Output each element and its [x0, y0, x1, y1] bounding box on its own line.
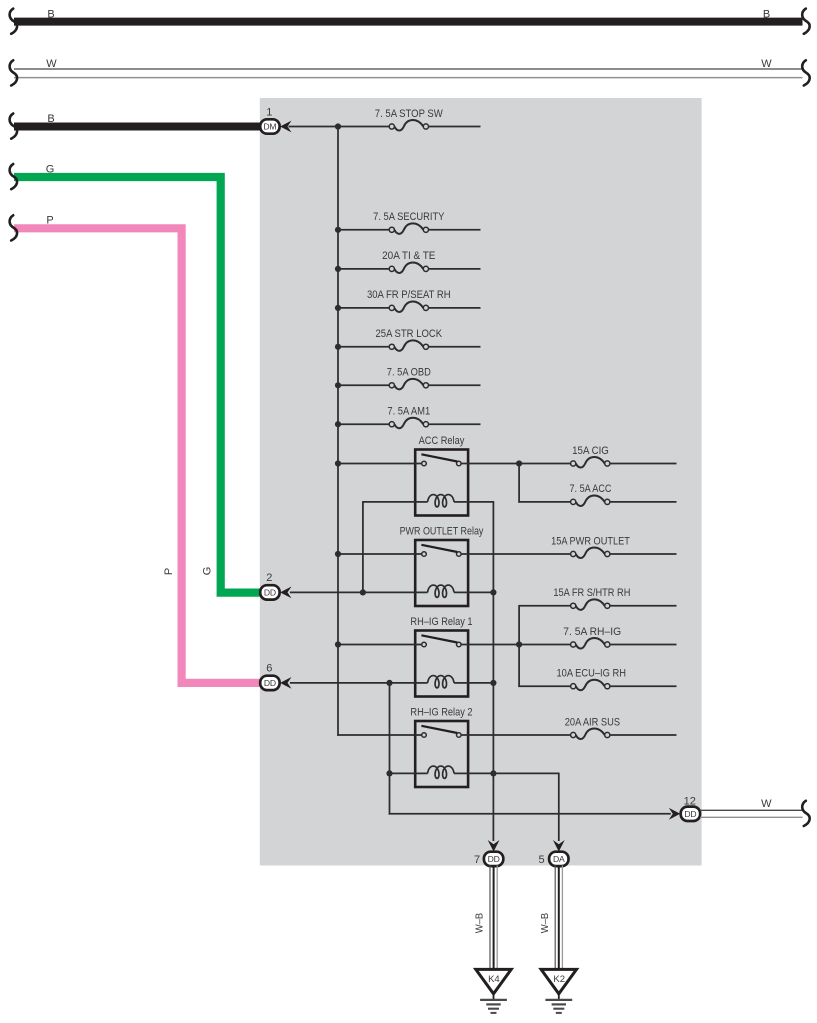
svg-text:PWR OUTLET Relay: PWR OUTLET Relay [400, 526, 484, 538]
junction DD2 wire / ACC coil branch [360, 589, 366, 595]
junction bus / ACC Relay switch row [335, 460, 341, 466]
fuse F1 7.5A STOP SW [389, 124, 394, 129]
wire RH-IG fuse output stub [610, 644, 677, 646]
junction bus / row 25A STR LOCK [335, 344, 341, 350]
svg-text:B: B [47, 113, 54, 125]
connector DM pin 1 [260, 119, 291, 133]
svg-text:7. 5A SECURITY: 7. 5A SECURITY [373, 211, 445, 223]
connector DD pin 2 [260, 585, 291, 599]
wire bus to RH&#8211;IG Relay 1 switch [338, 644, 415, 646]
junction bus / row 7. 5A SECURITY [335, 227, 341, 233]
fuse 15A CIG [571, 461, 576, 466]
svg-text:W–B: W–B [474, 912, 485, 933]
svg-text:7. 5A STOP SW: 7. 5A STOP SW [375, 108, 444, 120]
svg-text:G: G [201, 567, 213, 576]
connector DD pin 12 [669, 807, 700, 821]
wire feeder FR S/HTR down to RH-IG row [518, 605, 520, 687]
wire W-B to ground K4 [490, 866, 497, 970]
wire ACC fuse output stub [610, 501, 677, 503]
junction bus / row 7. 5A AM1 [335, 421, 341, 427]
svg-text:15A FR S/HTR RH: 15A FR S/HTR RH [553, 587, 630, 599]
junction bus / PWR OUTLET Relay switch row [335, 551, 341, 557]
fuse 25A STR LOCK [389, 344, 394, 349]
svg-text:15A PWR OUTLET: 15A PWR OUTLET [551, 535, 630, 547]
fuse 7. 5A SECURITY [389, 227, 394, 232]
wire bus to fuse row 7. 5A SECURITY [338, 229, 389, 231]
relay RH&#8211;IG Relay 2 [415, 721, 468, 787]
svg-text:1: 1 [266, 107, 272, 119]
wire branch DD6 node down to RH-IG2 coil and DD12 [389, 682, 391, 815]
fuse 7. 5A AM1 [389, 422, 394, 427]
fuse 7. 5A OBD [389, 383, 394, 388]
svg-text:ACC Relay: ACC Relay [419, 435, 465, 447]
svg-text:W: W [46, 58, 57, 70]
svg-text:DA: DA [553, 854, 565, 864]
wire RH-IG Relay 1 switch output [468, 644, 570, 646]
svg-text:B: B [47, 8, 54, 20]
fuse 20A TI &amp; TE [389, 266, 394, 271]
connector DD pin 6 terminal wire [290, 682, 415, 684]
wire RH-IG Relay 2 switch output [468, 734, 570, 736]
wire bus to fuse row 20A TI &amp; TE [338, 268, 389, 270]
fuse 7.5A ACC [571, 499, 576, 504]
svg-text:6: 6 [266, 662, 272, 674]
wire W bus (double line) [10, 60, 810, 85]
junction bus / row 30A FR P/SEAT RH [335, 305, 341, 311]
junction bus / row 7. 5A OBD [335, 382, 341, 388]
ground K2 [541, 969, 576, 993]
wire 25A STR LOCK fuse output stub [429, 346, 481, 348]
svg-text:K2: K2 [553, 974, 565, 985]
wire PWR OUTLET fuse output stub [610, 553, 677, 555]
wire PWR OUTLET Relay switch output [468, 553, 570, 555]
svg-text:12: 12 [684, 795, 696, 807]
wire CIG fuse output stub [610, 463, 677, 465]
junction RH-IG row / feeder [516, 641, 522, 647]
wire ACC Relay coil left to corner [363, 501, 415, 503]
wire main feed bus (vertical) [337, 127, 339, 736]
svg-text:B: B [763, 8, 770, 20]
wire G (green) to connector DD pin 2 [10, 164, 260, 593]
relay ACC Relay [415, 450, 468, 516]
wire RH-IG Relay 2 coil left [389, 772, 416, 774]
junction bus / row 20A TI &amp; TE [335, 266, 341, 272]
wire bus to fuse row 30A FR P/SEAT RH [338, 307, 389, 309]
wire 30A FR P/SEAT RH fuse output stub [429, 307, 481, 309]
svg-text:W: W [761, 58, 772, 70]
wire W (white, double line) from DD pin 12 [700, 801, 809, 826]
junction RH-IG2 coil / right vertical [490, 770, 496, 776]
wire AIR SUS fuse output stub [610, 734, 677, 736]
fuse 15A FR S/HTR RH [571, 603, 576, 608]
wire P (pink) to connector DD pin 6 [10, 215, 260, 683]
wire bus to fuse row 7. 5A AM1 [338, 423, 389, 425]
svg-text:5: 5 [538, 854, 544, 866]
wire 7. 5A SECURITY fuse output stub [429, 229, 481, 231]
connector DD pin 6 [260, 676, 291, 690]
wire W-B to ground K2 [555, 866, 562, 970]
wire feeder CIG row down to ACC row [518, 464, 520, 503]
fuse 10A ECU-IG RH [571, 684, 576, 689]
junction RH-IG2 coil / left vertical [386, 770, 392, 776]
svg-text:G: G [46, 163, 55, 175]
junction PWR OUTLET coil right / vertical [490, 589, 496, 595]
svg-text:DD: DD [488, 854, 500, 864]
wire ECU-IG fuse output stub [610, 685, 677, 687]
svg-text:7. 5A RH–IG: 7. 5A RH–IG [563, 626, 621, 638]
wire ACC Relay coil right [468, 501, 493, 503]
svg-text:20A AIR SUS: 20A AIR SUS [565, 716, 620, 728]
svg-text:DD: DD [264, 678, 276, 688]
svg-text:7. 5A OBD: 7. 5A OBD [387, 367, 431, 379]
wire 20A TI &amp; TE fuse output stub [429, 268, 481, 270]
wire FR S/HTR fuse output stub [610, 605, 677, 607]
junction RH-IG1 coil right / vertical [490, 680, 496, 686]
fuse 30A FR P/SEAT RH [389, 305, 394, 310]
junction CIG row / ACC fuse feeder [516, 460, 522, 466]
wire bus to fuse row 25A STR LOCK [338, 346, 389, 348]
fuse 7.5A RH-IG [571, 642, 576, 647]
junction bus / RH&#8211;IG Relay 1 switch row [335, 641, 341, 647]
svg-text:W: W [761, 798, 772, 810]
wire bus to ACC Relay switch [338, 463, 415, 465]
wire RH-IG Relay 2 coil right to corner [468, 772, 559, 774]
svg-text:25A STR LOCK: 25A STR LOCK [376, 328, 443, 340]
wire to connector DD pin 12 [389, 813, 671, 815]
wire 7. 5A OBD fuse output stub [429, 384, 481, 386]
wire bus to fuse row 7. 5A OBD [338, 384, 389, 386]
relay RH&#8211;IG Relay 1 [415, 631, 468, 697]
svg-text:DM: DM [263, 122, 276, 132]
svg-text:RH–IG Relay 1: RH–IG Relay 1 [410, 616, 472, 628]
wire FR S/HTR feeder corner [519, 605, 571, 607]
fuse 20A AIR SUS [571, 732, 576, 737]
wire STOP SW fuse output stub [429, 126, 481, 128]
panel: junction block background [260, 98, 702, 866]
svg-text:7. 5A AM1: 7. 5A AM1 [387, 406, 430, 418]
svg-text:K4: K4 [488, 974, 500, 985]
wire right vertical net (relay coils to connector DD 7) [492, 501, 494, 841]
svg-text:15A CIG: 15A CIG [572, 445, 609, 457]
svg-text:P: P [163, 568, 175, 575]
relay PWR OUTLET Relay [415, 540, 468, 606]
wire bus to PWR OUTLET Relay switch [338, 553, 415, 555]
wire corner down to DD pin 2 node [362, 501, 364, 592]
wire corner down to connector DA 5 [558, 773, 560, 841]
ground K4 [476, 969, 511, 993]
svg-text:10A ECU–IG RH: 10A ECU–IG RH [556, 668, 626, 680]
wire ECU-IG feeder corner [518, 685, 570, 687]
wire B to connector DM pin 1 [10, 114, 261, 139]
wire RH-IG Relay 1 coil right [468, 682, 493, 684]
svg-text:7: 7 [474, 854, 480, 866]
wire ACC fuse feeder [518, 501, 570, 503]
wire B bus (top, thick black) [10, 9, 810, 34]
svg-text:7. 5A ACC: 7. 5A ACC [570, 483, 612, 495]
wire 7. 5A AM1 fuse output stub [429, 423, 481, 425]
connector DD pin 2 terminal wire [290, 591, 415, 593]
svg-text:W–B: W–B [540, 912, 551, 933]
svg-text:2: 2 [266, 572, 272, 584]
junction bus / STOP SW row [335, 123, 341, 129]
svg-text:30A FR P/SEAT RH: 30A FR P/SEAT RH [367, 289, 451, 301]
junction DD6 wire / down branch [386, 680, 392, 686]
svg-text:RH–IG Relay 2: RH–IG Relay 2 [410, 707, 472, 719]
connector DD pin 7 [484, 840, 503, 866]
fuse 15A PWR OUTLET [571, 551, 576, 556]
wire ACC Relay switch output [468, 463, 570, 465]
svg-text:DD: DD [684, 809, 696, 819]
connector DA pin 5 [549, 840, 568, 866]
svg-text:DD: DD [264, 588, 276, 598]
wire PWR OUTLET Relay coil right [468, 591, 493, 593]
wire connector DM to bus to fuse STOP SW [289, 126, 390, 128]
wire bus corner to RH-IG Relay 2 switch [337, 734, 415, 736]
svg-text:P: P [46, 215, 53, 227]
svg-text:20A TI & TE: 20A TI & TE [382, 250, 435, 262]
